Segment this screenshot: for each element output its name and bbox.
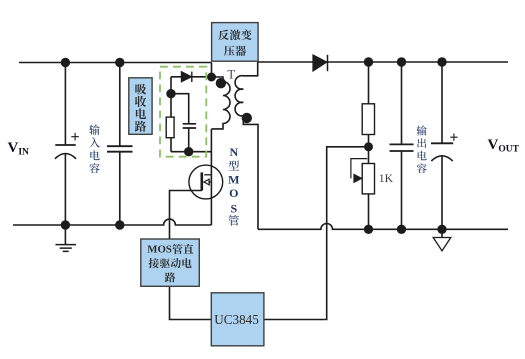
label box: snubber circuit [129, 78, 152, 135]
label box: MOS driver [141, 239, 200, 286]
capacitor C1 top plate [55, 144, 75, 146]
node dot: output rail / C3 [397, 57, 406, 66]
wire snubber cap branch [171, 94, 189, 152]
node dot: snubber left branch [166, 89, 175, 98]
node dot: bottom rail / C1 / GND1 [61, 220, 70, 229]
wire MOSFET drain/source vertical [210, 129, 212, 225]
capacitor C2 plates [107, 146, 133, 152]
transformer primary phase dot [216, 78, 226, 88]
capacitor C3 output film leads [401, 62, 403, 229]
resistor R1 body [362, 104, 374, 135]
wire snubber top [171, 76, 212, 78]
capacitor C4 output electrolytic leads [441, 62, 443, 229]
node dot: bottom rail / pot [364, 225, 373, 234]
diode D2 output rectifier [313, 55, 327, 71]
node dot: snubber bottom [184, 147, 193, 156]
wire UC3845 to feedback divider [264, 147, 369, 320]
potentiometer RP body [362, 164, 374, 194]
resistor R2 snubber body [166, 117, 174, 138]
potentiometer RP lead bottom [368, 194, 370, 229]
capacitor C4 top plate [431, 142, 453, 144]
svg-text:UC3845: UC3845 [214, 313, 258, 328]
label text: 输入电容 [89, 125, 99, 135]
wire top rail left (VIN+) [19, 62, 212, 64]
wire top rail right (VOUT+) [258, 61, 508, 63]
capacitor C2 input film leads [119, 63, 121, 226]
node dot: bottom rail / C2 [115, 220, 124, 229]
wire primary top drop [211, 63, 213, 78]
label box: flyback transformer [212, 23, 259, 62]
transformer T secondary winding [235, 62, 258, 229]
diode D1 snubber [181, 72, 191, 82]
op-amp U1 UC3845 box [211, 293, 264, 346]
transformer secondary phase dot [242, 113, 252, 123]
snubber dashed outline box [160, 67, 206, 157]
svg-text:T: T [227, 67, 235, 81]
capacitor C4 curved plate [431, 156, 452, 161]
potentiometer RP wiper link [351, 159, 367, 179]
node dot: input rail / C2 [115, 58, 124, 67]
wire snubber left branch [170, 77, 172, 152]
wire driver box to UC3845 [170, 286, 212, 319]
node dot: bottom rail / C4 / GND2 [437, 225, 446, 234]
label text: 反激变压器 [218, 30, 229, 41]
node dot: output rail / R1 [364, 57, 373, 66]
svg-text:S: S [230, 201, 237, 215]
svg-text:1K: 1K [379, 172, 394, 185]
node dot: bottom rail / C3 [397, 225, 406, 234]
node dot: primary top [207, 73, 216, 82]
wire gate to driver box with rail crossing [170, 191, 202, 240]
label text: 吸收电路 [135, 84, 146, 95]
transistor Q1 arrow head [204, 179, 209, 185]
transformer T primary winding [211, 77, 230, 129]
svg-text:M: M [228, 172, 239, 186]
potentiometer RP arrow head [354, 174, 362, 182]
svg-text:O: O [229, 186, 238, 200]
capacitor C4 plus sign [450, 134, 457, 141]
svg-text:N: N [229, 145, 238, 159]
svg-text:MOS: MOS [147, 244, 172, 256]
capacitor C3 plates [390, 144, 414, 151]
wire bottom rail left (primary gnd) with hop over gate wire [13, 219, 211, 225]
transistor Q1 body stub [208, 181, 211, 183]
transistor Q1 MOSFET body circle [189, 165, 223, 199]
wire snubber bottom [171, 151, 211, 153]
label text: N型MOS管 column [228, 161, 239, 171]
node dot: feedback divider [364, 142, 373, 151]
capacitor C5 snubber plates [183, 124, 196, 128]
resistor R1 lead top [368, 62, 370, 104]
capacitor C1 curved plate [55, 154, 76, 159]
capacitor C1 plus sign [71, 133, 79, 141]
transistor Q1 gate bar [201, 172, 204, 190]
resistor R1 lead bottom / pot top [368, 135, 370, 164]
ground GND1 bars [56, 245, 77, 252]
wire bottom rail right (secondary gnd) with hop over feedback wire [258, 224, 508, 230]
node dot: output rail / C4 [437, 57, 446, 66]
transistor Q1 drain stub [204, 174, 211, 176]
capacitor C1 input electrolytic leads [64, 63, 66, 226]
ground GND1 stem [64, 225, 66, 244]
ground GND2 open triangle [433, 238, 451, 251]
label text: 输出电容 [417, 125, 427, 135]
node dot: input rail / C1 [61, 58, 70, 67]
ground GND2 stem [441, 229, 443, 237]
